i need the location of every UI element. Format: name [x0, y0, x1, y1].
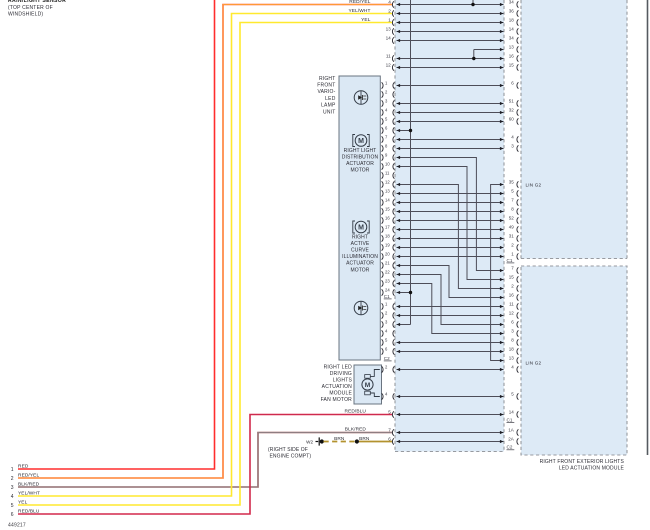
right LED driving lights actuation module fan motor box	[354, 365, 382, 404]
svg-text:VARIO-: VARIO-	[317, 89, 335, 95]
svg-text:MOTOR: MOTOR	[350, 267, 369, 273]
svg-text:4: 4	[11, 494, 14, 500]
diagram sheet right border	[647, 0, 649, 455]
svg-text:15: 15	[509, 275, 515, 280]
svg-text:LIN G2: LIN G2	[526, 182, 542, 187]
wire B21-16	[397, 264, 504, 299]
svg-text:2: 2	[385, 90, 388, 95]
svg-text:12: 12	[385, 180, 390, 185]
svg-text:DRIVING: DRIVING	[330, 371, 352, 377]
wire fan2-4	[397, 368, 504, 371]
lamp unit connector C1 pins 1-24	[382, 81, 395, 296]
svg-text:7: 7	[388, 428, 391, 433]
wire stub from 4-34 row to top edge	[472, 0, 474, 5]
svg-text:10: 10	[385, 162, 390, 167]
wire B10-15	[397, 165, 504, 281]
wire B18-31	[397, 237, 504, 240]
svg-text:18: 18	[509, 347, 515, 352]
ground W2	[316, 437, 324, 445]
svg-text:FAN MOTOR: FAN MOTOR	[321, 397, 353, 403]
svg-text:M: M	[358, 225, 364, 232]
wire label BRN (left)	[334, 436, 345, 442]
svg-text:14: 14	[385, 198, 390, 203]
svg-text:1: 1	[385, 302, 388, 307]
actuation module connector C2 pins	[508, 266, 518, 445]
svg-text:RED: RED	[18, 463, 29, 469]
wire B22-6	[397, 273, 504, 326]
actuation module connector label C1 (bottom)	[507, 417, 515, 422]
svg-text:2: 2	[388, 9, 391, 14]
svg-text:4: 4	[385, 329, 388, 334]
svg-text:449217: 449217	[8, 523, 26, 529]
svg-text:6: 6	[385, 126, 388, 131]
svg-text:4: 4	[388, 0, 391, 5]
svg-text:CURVE: CURVE	[351, 248, 369, 254]
svg-text:13: 13	[385, 189, 390, 194]
svg-text:RIGHT LED: RIGHT LED	[324, 364, 353, 370]
svg-text:31: 31	[509, 234, 515, 239]
svg-text:8: 8	[511, 338, 514, 343]
wire B1-6	[397, 84, 504, 87]
svg-text:52: 52	[509, 216, 515, 221]
wire RED/BLU	[18, 415, 392, 515]
wire B9-7	[397, 156, 504, 272]
wire RED/YEL	[18, 5, 392, 479]
drawing number	[8, 523, 26, 529]
svg-text:14: 14	[509, 27, 515, 32]
svg-text:20: 20	[385, 252, 390, 257]
actuation module connector label C1 (top)	[507, 258, 515, 263]
motor M2 name label	[342, 234, 378, 273]
wire C2p5-8	[397, 341, 504, 344]
svg-text:M: M	[365, 382, 371, 389]
wire RED/BLU-14	[397, 413, 504, 416]
svg-text:6: 6	[385, 347, 388, 352]
motor M2 right active curve illumination actuator	[353, 221, 369, 233]
svg-text:C1: C1	[384, 294, 390, 299]
junction bus / lamp C1 pin 6	[397, 129, 413, 132]
svg-text:RIGHT FRONT EXTERIOR LIGHTS: RIGHT FRONT EXTERIOR LIGHTS	[540, 459, 625, 465]
svg-text:2A: 2A	[508, 437, 514, 442]
svg-text:1: 1	[388, 18, 391, 23]
bus wire from top edge to lamp unit C2 pin 3	[397, 0, 411, 326]
svg-text:LAMP: LAMP	[321, 103, 336, 109]
svg-text:5: 5	[385, 338, 388, 343]
fan motor M symbol	[362, 370, 380, 397]
wire B16-52	[397, 219, 504, 222]
fan motor name label	[321, 364, 353, 403]
svg-text:49: 49	[509, 225, 515, 230]
wire B19-2	[397, 246, 504, 249]
LED symbol (vario-LED lamp)	[354, 91, 368, 105]
wire B12-2	[397, 183, 504, 290]
wire callout 3 BLK/RED	[11, 481, 40, 490]
wire label RED/YEL (top)	[349, 0, 370, 5]
wire B14-7	[397, 201, 504, 204]
wire BLK/RED	[18, 433, 392, 488]
wire BLK/RED-1A	[397, 431, 504, 434]
location label right side of engine compt	[268, 447, 311, 460]
wire 2-36	[397, 12, 504, 15]
harness connector pins (left edge of pass-through)	[386, 0, 394, 445]
svg-text:5: 5	[511, 189, 514, 194]
wire callout 1 RED	[11, 463, 29, 472]
svg-text:6: 6	[511, 320, 514, 325]
svg-text:UNIT: UNIT	[323, 109, 335, 115]
svg-text:BRN: BRN	[334, 436, 345, 442]
svg-text:LED ACTUATION MODULE: LED ACTUATION MODULE	[559, 465, 625, 471]
wire YEL/WHT	[18, 14, 392, 497]
svg-text:4: 4	[511, 135, 514, 140]
svg-text:ACTUATION: ACTUATION	[322, 384, 353, 390]
wire C2p1-11	[397, 305, 504, 308]
location label top center of windshield	[8, 5, 53, 17]
svg-text:ACTUATOR: ACTUATOR	[346, 261, 374, 267]
svg-text:14: 14	[386, 36, 392, 41]
svg-text:60: 60	[509, 117, 515, 122]
lamp unit connector label C2	[384, 356, 392, 361]
svg-text:YEL/WHT: YEL/WHT	[18, 490, 40, 496]
svg-text:YEL: YEL	[361, 17, 371, 23]
svg-text:YEL/WHT: YEL/WHT	[348, 8, 370, 14]
svg-text:2: 2	[385, 311, 388, 316]
right front exterior lights LED actuation module connector C1 box	[521, 0, 627, 259]
svg-text:21: 21	[385, 261, 390, 266]
wire B8-3	[397, 147, 504, 150]
svg-text:7: 7	[511, 198, 514, 203]
fan motor connector pins 2 and 4	[382, 365, 395, 400]
net label LIN G2 (bottom)	[526, 360, 542, 365]
wire 4-34	[397, 3, 504, 6]
svg-text:MODULE: MODULE	[329, 390, 352, 396]
svg-text:8: 8	[385, 144, 388, 149]
svg-text:RED/BLU: RED/BLU	[345, 409, 367, 415]
svg-text:3: 3	[385, 320, 388, 325]
svg-text:4: 4	[385, 108, 388, 113]
svg-text:W2: W2	[306, 440, 313, 445]
wire callout 6 RED/BLU	[11, 508, 40, 517]
svg-text:16: 16	[509, 54, 515, 59]
svg-text:12: 12	[509, 311, 515, 316]
lamp unit connector label C1	[384, 294, 392, 299]
svg-text:14: 14	[509, 410, 515, 415]
svg-text:M: M	[358, 138, 364, 145]
svg-text:22: 22	[385, 270, 390, 275]
harness pass-through box (middle, dashed)	[395, 0, 504, 452]
junction on wire 11-16	[472, 57, 475, 60]
actuation module connector C1 pins	[509, 0, 519, 260]
actuation module connector label C2 (bottom)	[507, 445, 515, 450]
lamp unit connector C2 pins 1-6	[382, 302, 395, 355]
svg-text:51: 51	[509, 99, 515, 104]
svg-text:FRONT: FRONT	[317, 83, 335, 89]
wire callout 4 YEL/WHT	[11, 490, 40, 499]
svg-text:(RIGHT SIDE OF: (RIGHT SIDE OF	[268, 447, 308, 453]
junction bus / lamp C1 pin 24	[397, 291, 413, 294]
svg-text:C2: C2	[507, 445, 513, 450]
svg-text:35: 35	[509, 180, 515, 185]
svg-text:7: 7	[511, 266, 514, 271]
svg-text:4: 4	[385, 392, 388, 397]
svg-text:WINDSHIELD): WINDSHIELD)	[8, 11, 43, 17]
wire B13-5	[397, 192, 504, 195]
svg-text:RIGHT: RIGHT	[319, 76, 336, 82]
svg-text:19: 19	[385, 243, 390, 248]
wire B20-1	[397, 255, 504, 258]
svg-text:C1: C1	[507, 258, 513, 263]
cropped sensor label (top left)	[8, 0, 66, 4]
wire B5-60	[397, 120, 504, 123]
svg-text:34: 34	[509, 0, 515, 5]
right front vario-LED lamp unit box	[339, 76, 380, 360]
svg-text:ILLUMINATION: ILLUMINATION	[342, 254, 378, 260]
wire label BRN (right)	[359, 436, 370, 442]
svg-text:13: 13	[386, 27, 392, 32]
wire B7-4	[397, 138, 504, 141]
wire C2p2-12	[397, 314, 504, 317]
LED symbol 2 (lamp unit lower)	[354, 301, 368, 315]
svg-text:ENGINE COMPT): ENGINE COMPT)	[270, 453, 312, 459]
svg-text:24: 24	[385, 288, 390, 293]
net label LIN G2 (top)	[526, 182, 542, 187]
wire label RED/BLU	[345, 409, 367, 415]
wire BRN dashed segment	[324, 441, 356, 443]
svg-text:1: 1	[385, 81, 388, 86]
svg-text:5: 5	[388, 410, 391, 415]
svg-text:LIN G2: LIN G2	[526, 360, 542, 365]
svg-text:1: 1	[511, 252, 514, 257]
motor M1 right light distribution actuator	[353, 135, 369, 147]
svg-text:4: 4	[511, 365, 514, 370]
svg-text:RIGHT LIGHT: RIGHT LIGHT	[344, 148, 377, 154]
module name label	[540, 459, 625, 472]
junction on BRN wire	[355, 439, 359, 443]
svg-text:18: 18	[385, 234, 390, 239]
wire 11-16	[397, 57, 504, 60]
svg-text:7: 7	[385, 135, 388, 140]
svg-text:RAIN/LIGHT SENSOR: RAIN/LIGHT SENSOR	[8, 0, 66, 4]
wire YEL	[18, 23, 392, 506]
svg-text:LED: LED	[325, 96, 336, 102]
wire BRN-2A	[397, 440, 504, 443]
svg-text:9: 9	[385, 153, 388, 158]
svg-text:RED/BLU: RED/BLU	[18, 508, 40, 514]
svg-text:ACTIVE: ACTIVE	[351, 241, 370, 247]
junction on wire 4-34	[471, 3, 474, 6]
svg-text:LIGHTS: LIGHTS	[333, 377, 353, 383]
svg-text:2: 2	[11, 476, 14, 482]
svg-text:2: 2	[511, 284, 514, 289]
svg-text:32: 32	[509, 108, 515, 113]
svg-text:1A: 1A	[508, 428, 514, 433]
svg-text:BLK/RED: BLK/RED	[345, 427, 367, 433]
svg-text:8: 8	[511, 207, 514, 212]
svg-text:YEL: YEL	[18, 499, 28, 505]
svg-text:1: 1	[11, 467, 14, 473]
wire callout 2 RED/YEL	[11, 472, 40, 481]
svg-text:MOTOR: MOTOR	[350, 168, 369, 174]
svg-text:11: 11	[509, 302, 514, 307]
lamp unit name label	[317, 76, 336, 116]
motor M1 name label	[342, 148, 379, 174]
wire callout 5 YEL	[11, 499, 28, 508]
svg-text:2: 2	[385, 365, 388, 370]
wire LIN G2 bus 35-13	[491, 183, 504, 362]
wire fan4-5	[397, 395, 504, 398]
svg-text:BLK/RED: BLK/RED	[18, 481, 40, 487]
svg-text:23: 23	[385, 279, 390, 284]
svg-text:BRN: BRN	[359, 436, 370, 442]
svg-text:15: 15	[509, 63, 515, 68]
svg-text:3: 3	[11, 485, 14, 491]
wire 14-34	[397, 39, 504, 42]
svg-text:3: 3	[385, 99, 388, 104]
svg-text:3: 3	[511, 144, 514, 149]
svg-text:ACTUATOR: ACTUATOR	[346, 161, 374, 167]
wire label YEL (top)	[361, 17, 371, 23]
svg-text:6: 6	[11, 512, 14, 518]
wire label BLK/RED	[345, 427, 367, 433]
wire 11-16 branch jog to pin 13	[474, 48, 504, 59]
wire 13-14	[397, 30, 504, 33]
svg-text:11: 11	[386, 54, 391, 59]
svg-text:36: 36	[509, 9, 515, 14]
svg-text:6: 6	[388, 437, 391, 442]
wire 1-18	[397, 21, 504, 24]
right front exterior lights LED actuation module connector C2 box	[521, 266, 627, 455]
svg-text:(TOP CENTER OF: (TOP CENTER OF	[8, 5, 53, 11]
svg-text:5: 5	[11, 503, 14, 509]
svg-text:5: 5	[385, 117, 388, 122]
svg-text:11: 11	[385, 171, 390, 176]
svg-text:16: 16	[385, 216, 390, 221]
wire BRN solid segment	[359, 441, 392, 443]
svg-text:15: 15	[385, 207, 390, 212]
ground label W2	[306, 440, 313, 445]
svg-text:2: 2	[511, 243, 514, 248]
svg-text:6: 6	[511, 81, 514, 86]
svg-text:18: 18	[509, 18, 515, 23]
wire B17-49	[397, 228, 504, 231]
svg-text:C2: C2	[384, 356, 390, 361]
wire B3-51	[397, 102, 504, 105]
svg-text:3: 3	[511, 329, 514, 334]
svg-text:5: 5	[511, 392, 514, 397]
svg-text:13: 13	[509, 45, 515, 50]
svg-text:RED/YEL: RED/YEL	[18, 472, 39, 478]
wire B4-32	[397, 111, 504, 114]
wire RED	[18, 0, 215, 469]
svg-text:17: 17	[385, 225, 390, 230]
svg-text:RED/YEL: RED/YEL	[349, 0, 370, 5]
svg-text:C1: C1	[507, 417, 513, 422]
svg-text:34: 34	[509, 36, 515, 41]
svg-text:16: 16	[509, 293, 515, 298]
wire 12-15	[397, 66, 504, 69]
svg-text:RIGHT: RIGHT	[352, 234, 368, 240]
wire label YEL/WHT (top)	[348, 8, 370, 14]
wire C2p6-18	[397, 350, 504, 353]
wire B15-8	[397, 210, 504, 213]
svg-text:12: 12	[386, 63, 392, 68]
svg-text:13: 13	[509, 356, 515, 361]
svg-text:DISTRIBUTION: DISTRIBUTION	[342, 154, 379, 160]
wire B23-3	[397, 282, 504, 335]
